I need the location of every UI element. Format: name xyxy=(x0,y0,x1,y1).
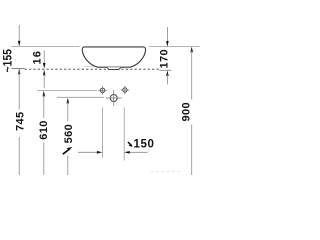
faucet hole right circle xyxy=(121,86,129,94)
dim 150 right arrow xyxy=(124,151,147,154)
dim 610 line upper segment xyxy=(43,95,45,118)
dim 900 line lower segment xyxy=(191,125,193,176)
svg-text:170: 170 xyxy=(158,49,170,69)
washbasin bowl outline xyxy=(82,47,145,67)
faucet hole left circle xyxy=(98,86,106,94)
svg-text:745: 745 xyxy=(15,111,27,131)
dim 170 bottom tail xyxy=(166,75,168,85)
dim ~155/745 bottom arrowhead xyxy=(18,69,21,75)
svg-text:560: 560 xyxy=(63,124,75,144)
dim 16 bottom tail xyxy=(43,74,45,88)
dim 610 line lower segment xyxy=(43,142,45,174)
dim 170 upper line xyxy=(166,27,168,43)
svg-text:900: 900 xyxy=(180,102,192,122)
dim ~155 upper line xyxy=(18,25,20,43)
countertop solid segment xyxy=(12,68,25,70)
supply extension line xyxy=(38,89,98,91)
svg-text:150: 150 xyxy=(134,138,155,150)
rim extension line left xyxy=(11,46,79,48)
dim 610 top arrowhead xyxy=(43,91,46,97)
basin foot xyxy=(107,67,122,69)
dim 170 top arrowhead xyxy=(166,41,169,47)
dim 745 line upper segment xyxy=(18,71,20,110)
basin inner bottom faint line xyxy=(85,65,132,67)
dim 150 left arrow xyxy=(78,151,102,154)
label 150 slanted arrow xyxy=(128,142,133,147)
drain extension line xyxy=(57,96,104,98)
dim 170 bottom arrowhead xyxy=(166,70,169,76)
dim 16 top arrowhead xyxy=(43,63,46,69)
dim 560 line lower segment xyxy=(67,156,69,176)
floor hint dashes xyxy=(151,170,182,172)
dim 900 top arrowhead xyxy=(190,47,193,53)
dim 560 top arrowhead xyxy=(67,98,70,104)
dim 900 line upper segment xyxy=(191,51,193,100)
dim 16 bottom arrowhead xyxy=(43,70,46,76)
dim 16 upper line xyxy=(43,51,45,65)
rim extension line right xyxy=(149,46,200,48)
svg-text:610: 610 xyxy=(38,120,50,140)
dim 745 line lower segment xyxy=(18,137,20,175)
dim 150 left extension line xyxy=(101,108,103,158)
counter underside right solid segment xyxy=(159,69,171,71)
svg-text:~155: ~155 xyxy=(2,49,15,72)
svg-text:16: 16 xyxy=(31,50,43,64)
dim 150 right extension line xyxy=(123,108,125,161)
dim 560 line upper segment xyxy=(67,102,69,121)
label 560 slanted arrow xyxy=(63,147,72,154)
dim ~155 top arrowhead xyxy=(18,41,21,47)
countertop dashed line xyxy=(25,68,159,70)
drain circle xyxy=(106,90,122,106)
